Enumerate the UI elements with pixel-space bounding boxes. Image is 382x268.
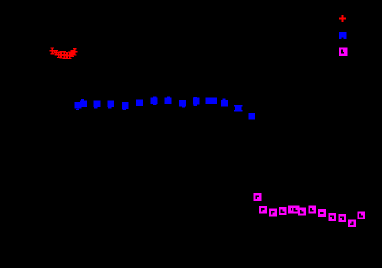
blue square point B4 xyxy=(108,101,115,109)
magenta open-square point M9 xyxy=(318,209,326,217)
blue square point B6 xyxy=(136,99,143,106)
blue square point B5 xyxy=(122,102,129,110)
magenta open-square point M1 xyxy=(254,193,262,201)
magenta open-square point M5 xyxy=(288,206,296,214)
magenta open-square point M2 xyxy=(259,206,267,214)
blue square point B15 xyxy=(248,113,255,120)
magenta open-square point M12 xyxy=(348,219,356,227)
red errorbar point R8 xyxy=(70,51,75,57)
blue square point B10 xyxy=(193,97,200,106)
blue square point B2 xyxy=(80,99,87,107)
red errorbar point R6 xyxy=(64,53,69,59)
magenta open-square point M8 xyxy=(308,206,316,214)
blue square point B8 xyxy=(165,96,172,104)
blue square point B14 xyxy=(234,105,242,112)
blue square point B13 xyxy=(221,99,228,107)
red errorbar point R4 xyxy=(58,52,63,59)
blue square point B9 xyxy=(179,100,186,108)
legend marker: blue filled square xyxy=(339,32,346,39)
magenta open-square point M6 xyxy=(292,206,300,214)
legend marker: red plus xyxy=(339,15,346,22)
magenta open-square point M4 xyxy=(279,207,287,215)
magenta open-square point M7 xyxy=(298,208,306,216)
blue square point B1 xyxy=(75,102,82,110)
red errorbar point R9 xyxy=(72,49,77,56)
blue square point B3 xyxy=(94,100,101,108)
blue square point B11 xyxy=(206,98,213,105)
red errorbar point R1 xyxy=(50,48,55,54)
red errorbar point R3 xyxy=(56,52,61,58)
red errorbar point R2 xyxy=(54,50,59,54)
red errorbar point R7 xyxy=(67,52,72,59)
blue square point B12 xyxy=(210,98,217,105)
magenta open-square point M3 xyxy=(269,209,277,217)
magenta open-square point M10 xyxy=(328,213,336,221)
magenta open-square point M13 xyxy=(357,211,365,219)
magenta open-square point M11 xyxy=(338,214,346,222)
red errorbar point R5 xyxy=(62,52,67,59)
blue square point B7 xyxy=(151,97,158,105)
legend marker: magenta open square xyxy=(339,48,347,56)
